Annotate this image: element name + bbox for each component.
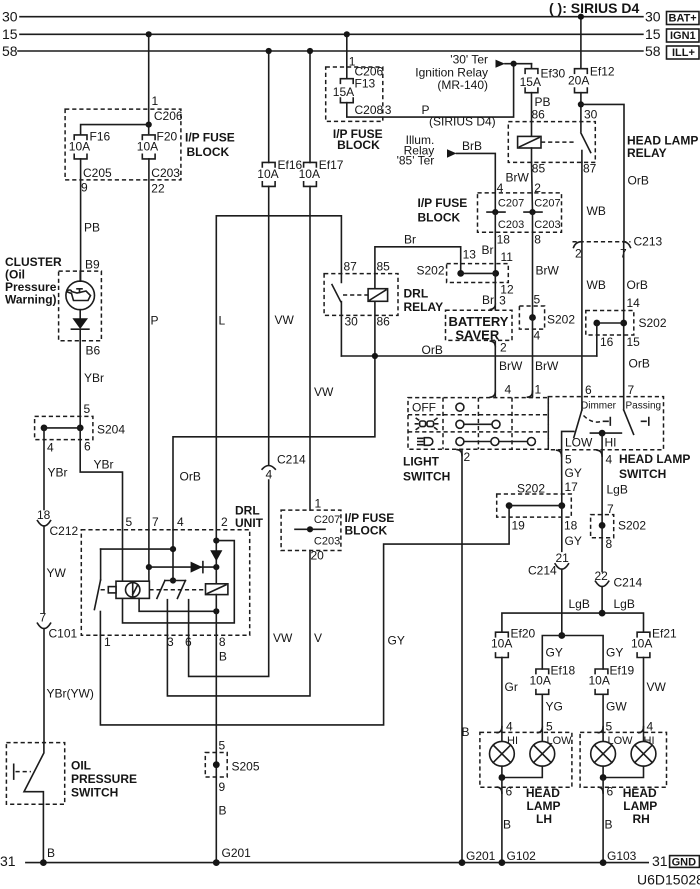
connector C214-4 arc bbox=[262, 466, 275, 470]
pin3 wire bbox=[166, 600, 168, 636]
C213 hook right bbox=[623, 242, 631, 248]
pin5 wire into motor unit bbox=[122, 530, 124, 581]
svg-text:HEAD: HEAD bbox=[526, 786, 560, 800]
I/P fuse block 2 dashed box bbox=[326, 67, 383, 121]
light switch contacts row1 bbox=[456, 403, 464, 411]
splice dot S202 box2 bbox=[529, 314, 536, 321]
svg-text:58: 58 bbox=[2, 43, 18, 59]
pin2 wire down bbox=[215, 530, 217, 584]
wire Ef21 out VW to HI lamp bbox=[643, 658, 645, 742]
svg-text:UNIT: UNIT bbox=[235, 516, 264, 530]
dimmer blade bbox=[574, 410, 582, 438]
wire C206 to F16 bbox=[81, 125, 149, 134]
svg-text:B: B bbox=[219, 650, 227, 664]
fuse Ef16 bbox=[262, 162, 275, 186]
svg-text:10A: 10A bbox=[137, 139, 158, 153]
svg-text:BrB: BrB bbox=[462, 139, 482, 153]
head lamp RH LOW bulb bbox=[591, 741, 616, 766]
inner loop wire to motor bottom bbox=[123, 541, 235, 623]
passing contact mark bbox=[642, 418, 649, 426]
svg-text:OrB: OrB bbox=[422, 343, 443, 357]
svg-text:V: V bbox=[314, 631, 322, 645]
svg-text:F20: F20 bbox=[157, 130, 178, 144]
svg-text:30: 30 bbox=[345, 315, 359, 329]
wire WB C213-2 to dimmer 6 bbox=[581, 242, 583, 410]
svg-text:PRESSURE: PRESSURE bbox=[71, 772, 137, 786]
svg-text:BrW: BrW bbox=[536, 264, 560, 278]
junction dot OrB x374.9 bbox=[372, 353, 378, 359]
pin8 wire down to S205 bbox=[215, 635, 217, 862]
svg-text:LH: LH bbox=[536, 812, 552, 826]
S202 box 5 bbox=[591, 515, 614, 538]
svg-text:VW: VW bbox=[275, 313, 295, 327]
svg-text:GY: GY bbox=[606, 646, 623, 660]
DRL relay coil bbox=[368, 289, 388, 302]
C207/C203 box on V wire bbox=[281, 510, 341, 550]
svg-text:Ef18: Ef18 bbox=[551, 664, 576, 678]
wire Ef17 out down to C207 bbox=[309, 186, 311, 510]
svg-text:2: 2 bbox=[500, 341, 507, 355]
svg-text:LgB: LgB bbox=[569, 597, 590, 611]
head lamp relay coil bbox=[518, 136, 541, 148]
connector C214-22 arc bbox=[595, 581, 608, 586]
svg-text:15: 15 bbox=[645, 26, 661, 42]
svg-text:L: L bbox=[219, 314, 226, 328]
svg-text:B6: B6 bbox=[86, 344, 101, 358]
svg-text:S204: S204 bbox=[97, 423, 125, 437]
svg-text:15A: 15A bbox=[520, 75, 541, 89]
junction dot bus15 x346.8 bbox=[344, 31, 350, 37]
LIGHT SWITCH dashed box bbox=[408, 398, 548, 450]
svg-text:'85' Ter: '85' Ter bbox=[397, 154, 435, 168]
junction dot diode to pin2 bbox=[213, 564, 219, 570]
motor unit box bbox=[116, 581, 149, 598]
svg-text:Warning): Warning) bbox=[5, 293, 57, 307]
svg-text:GY: GY bbox=[565, 466, 582, 480]
left switch upper wire bbox=[100, 549, 102, 580]
wire coil85 out BrW bbox=[531, 148, 533, 162]
svg-text:YBr(YW): YBr(YW) bbox=[47, 687, 94, 701]
svg-text:RELAY: RELAY bbox=[627, 146, 667, 160]
svg-text:U6D15028: U6D15028 bbox=[637, 872, 700, 888]
oil pressure switch blade bbox=[24, 743, 44, 805]
svg-text:4: 4 bbox=[647, 720, 654, 734]
svg-text:Br: Br bbox=[482, 243, 494, 257]
svg-text:C101: C101 bbox=[49, 627, 78, 641]
svg-text:18: 18 bbox=[497, 233, 511, 247]
svg-text:Br: Br bbox=[482, 293, 494, 307]
svg-text:GY: GY bbox=[546, 646, 563, 660]
center contact bar bbox=[170, 577, 176, 583]
svg-text:HEAD: HEAD bbox=[623, 786, 657, 800]
svg-text:B9: B9 bbox=[85, 258, 100, 272]
svg-text:10A: 10A bbox=[631, 637, 652, 651]
svg-text:Gr: Gr bbox=[505, 680, 518, 694]
junction dot bus58 x310 bbox=[307, 48, 313, 54]
wire from bus15 to I/P fuse block C206 bbox=[148, 34, 150, 133]
svg-text:Ef20: Ef20 bbox=[511, 627, 536, 641]
park lamp icon bbox=[415, 418, 437, 429]
svg-text:YG: YG bbox=[546, 700, 563, 714]
pin1 route to GY wire bbox=[100, 506, 509, 725]
wire Ef19 out GW to LOW lamp bbox=[602, 694, 604, 741]
diode horizontal bbox=[149, 566, 216, 568]
wire F16 out PB down to cluster bbox=[80, 159, 82, 281]
svg-text:Ef30: Ef30 bbox=[541, 67, 566, 81]
pin1 wire bbox=[99, 612, 101, 636]
svg-text:LgB: LgB bbox=[614, 597, 635, 611]
svg-text:7: 7 bbox=[628, 383, 635, 397]
svg-text:4: 4 bbox=[266, 468, 273, 482]
svg-text:5: 5 bbox=[606, 720, 613, 734]
relay internal dashed link bbox=[541, 141, 576, 143]
wire Ef16 from bus58 bbox=[268, 51, 270, 163]
svg-text:6: 6 bbox=[585, 383, 592, 397]
center blade right bbox=[177, 581, 185, 599]
light switch contacts row2 bbox=[460, 423, 496, 425]
svg-text:31: 31 bbox=[652, 853, 668, 869]
light switch contacts row3 bbox=[460, 441, 532, 443]
wire coil 86 down to OrB junction then to DRL unit pin4 bbox=[173, 301, 375, 530]
OIL PRESSURE SWITCH dashed box bbox=[6, 743, 64, 805]
svg-text:OrB: OrB bbox=[629, 357, 650, 371]
svg-text:G103: G103 bbox=[607, 849, 637, 863]
horizontal pin4 to left switch bbox=[101, 548, 173, 550]
svg-text:7: 7 bbox=[40, 611, 47, 625]
svg-text:BrW: BrW bbox=[499, 359, 523, 373]
BATTERY SAVER dashed box bbox=[446, 310, 513, 340]
svg-text:OrB: OrB bbox=[627, 278, 648, 292]
svg-text:3: 3 bbox=[499, 294, 506, 308]
wire lamp out B6 bbox=[79, 329, 81, 428]
junction dot low beam feed bbox=[558, 632, 565, 639]
svg-text:BLOCK: BLOCK bbox=[345, 524, 388, 538]
svg-text:4: 4 bbox=[534, 328, 541, 342]
svg-text:10A: 10A bbox=[530, 674, 551, 688]
wire Ef17 from bus58 bbox=[309, 51, 311, 163]
svg-text:VW: VW bbox=[273, 631, 293, 645]
terminal 2 hook bottom bbox=[457, 450, 462, 456]
C213 hook left bbox=[574, 242, 582, 248]
svg-text:(SIRIUS D4): (SIRIUS D4) bbox=[429, 115, 496, 129]
relay switch lower terminal bbox=[581, 151, 583, 163]
tick and dot C207/C203 bbox=[295, 528, 325, 530]
wire S204-4 YBr down bbox=[43, 428, 45, 510]
junction dot pin4 node bbox=[170, 546, 176, 552]
svg-text:3: 3 bbox=[385, 103, 392, 117]
passing wire into switch bbox=[623, 397, 625, 410]
svg-text:13: 13 bbox=[463, 248, 477, 262]
motor right bottom wire to rail A bbox=[139, 598, 216, 611]
svg-text:19: 19 bbox=[512, 519, 526, 533]
I/P fuse block 1 dashed box bbox=[65, 109, 181, 180]
wire HI LgB from switch bbox=[601, 450, 603, 526]
svg-text:8: 8 bbox=[534, 233, 541, 247]
svg-text:11: 11 bbox=[501, 250, 514, 264]
svg-text:C214: C214 bbox=[277, 453, 306, 467]
C213 dashed connector line bbox=[573, 241, 631, 243]
wire branch OrB to the right bbox=[581, 104, 624, 241]
LgB bus horizontal bbox=[502, 613, 644, 632]
svg-text:C207: C207 bbox=[498, 198, 524, 210]
lamp terminal hooks LH bbox=[497, 727, 542, 733]
relay switch blade bbox=[581, 133, 591, 153]
svg-text:18: 18 bbox=[564, 519, 578, 533]
svg-text:GW: GW bbox=[606, 700, 627, 714]
wire S202-18 GY down to C214-21 bbox=[561, 506, 563, 552]
pin8 wire through coil down bbox=[215, 595, 217, 636]
fuse Ef18 bbox=[536, 669, 549, 694]
svg-text:P: P bbox=[151, 314, 159, 328]
svg-text:2: 2 bbox=[221, 515, 228, 529]
svg-text:SAVER: SAVER bbox=[455, 328, 499, 343]
wire Ef12 out to relay 30 bbox=[580, 93, 582, 132]
hook 6 RH bbox=[598, 787, 603, 793]
wire RH common down bbox=[602, 778, 604, 863]
svg-text:1: 1 bbox=[104, 635, 111, 649]
svg-text:C206: C206 bbox=[154, 109, 183, 123]
oil pressure switch fixed contact bbox=[13, 764, 15, 779]
splice dots S202 box3 bbox=[593, 320, 600, 327]
oil can icon bbox=[67, 289, 90, 301]
svg-text:1: 1 bbox=[535, 383, 542, 397]
C207/C203 tick right bbox=[524, 211, 542, 213]
wire Ef18 out YG to LOW lamp bbox=[541, 694, 543, 741]
splice dot S202 box5 bbox=[599, 522, 606, 529]
svg-text:5: 5 bbox=[126, 515, 133, 529]
svg-text:18: 18 bbox=[37, 508, 51, 522]
horizontal L wire from DRL relay 87 bbox=[216, 216, 341, 530]
junction dot bus15 x148.7 bbox=[146, 31, 152, 37]
svg-text:1: 1 bbox=[152, 94, 159, 108]
fuse Ef17 bbox=[304, 162, 317, 186]
svg-text:86: 86 bbox=[532, 108, 546, 122]
passing blade bbox=[624, 410, 634, 434]
wire S202-4 BrW to light switch 1 bbox=[532, 318, 534, 397]
svg-text:15: 15 bbox=[627, 335, 641, 349]
junction dot pin7 node bbox=[146, 564, 152, 570]
S202 box 2 small bbox=[519, 306, 544, 329]
svg-text:5: 5 bbox=[219, 739, 226, 753]
connector C101 arc bbox=[37, 623, 50, 628]
svg-text:SWITCH: SWITCH bbox=[403, 470, 450, 484]
wire S204-6 YBr to DRL pin5 bbox=[80, 428, 122, 530]
svg-text:DRL: DRL bbox=[404, 287, 429, 301]
wire HI down bbox=[601, 433, 603, 450]
svg-text:WB: WB bbox=[587, 278, 606, 292]
svg-text:30: 30 bbox=[584, 108, 598, 122]
svg-text:C203: C203 bbox=[498, 219, 524, 231]
svg-text:86: 86 bbox=[377, 315, 391, 329]
diode vertical filled bbox=[210, 550, 222, 561]
svg-text:G201: G201 bbox=[222, 846, 252, 860]
wire BrB to C207 pin4 bbox=[457, 153, 496, 212]
C207/C203 tick left bbox=[487, 211, 505, 213]
svg-text:PB: PB bbox=[84, 221, 100, 235]
junction dot LgB bus bbox=[599, 610, 606, 617]
fuse Ef12 bbox=[575, 69, 588, 93]
svg-text:B: B bbox=[605, 818, 613, 832]
fuse Ef20 bbox=[496, 632, 509, 657]
svg-text:2: 2 bbox=[464, 450, 471, 464]
svg-text:4: 4 bbox=[47, 441, 54, 455]
splice dots S202 box4 bbox=[506, 502, 513, 509]
fuse Ef30 bbox=[525, 69, 538, 93]
wire S202-12 to battery saver to light switch 4 bbox=[494, 273, 496, 309]
svg-text:15: 15 bbox=[2, 26, 18, 42]
svg-text:Ef12: Ef12 bbox=[590, 65, 615, 79]
svg-text:10A: 10A bbox=[491, 637, 512, 651]
svg-text:Br: Br bbox=[404, 233, 416, 247]
svg-text:G102: G102 bbox=[507, 849, 537, 863]
svg-text:LAMP: LAMP bbox=[623, 799, 657, 813]
junction dot rail A pin8 bbox=[213, 608, 219, 614]
relay coil on pin8 wire bbox=[206, 584, 228, 595]
svg-text:20: 20 bbox=[311, 549, 325, 563]
svg-text:LIGHT: LIGHT bbox=[403, 455, 440, 469]
svg-text:B: B bbox=[47, 846, 55, 860]
splice dot S205 bbox=[213, 761, 220, 768]
HEAD LAMP RH dashed box bbox=[580, 732, 666, 787]
svg-text:RELAY: RELAY bbox=[404, 300, 444, 314]
wire LOW GY from switch bbox=[561, 450, 563, 506]
head lamp RH HI bulb bbox=[631, 741, 656, 766]
fuse F13 bbox=[340, 79, 353, 103]
svg-text:9: 9 bbox=[81, 181, 88, 195]
svg-text:(MR-140): (MR-140) bbox=[437, 78, 488, 92]
svg-text:LgB: LgB bbox=[607, 483, 628, 497]
boxed label ILL+ bbox=[667, 46, 700, 59]
bus line 30 (BAT+) bbox=[20, 16, 643, 18]
svg-text:SWITCH: SWITCH bbox=[619, 467, 666, 481]
svg-text:I/P FUSE: I/P FUSE bbox=[185, 131, 235, 145]
arrow to ignition relay 30 node bbox=[496, 60, 506, 68]
pin6 route to VW wire bbox=[189, 480, 269, 676]
wire 87 WB down to C213 bbox=[581, 162, 583, 241]
hook 6 LH bbox=[497, 787, 502, 793]
S202 box 1 bbox=[447, 264, 509, 283]
link dash left bbox=[101, 589, 109, 591]
svg-text:10A: 10A bbox=[69, 139, 90, 153]
cluster dashed box bbox=[59, 271, 102, 341]
junction dot HI bbox=[599, 430, 606, 437]
svg-text:C203: C203 bbox=[534, 219, 560, 231]
svg-text:22: 22 bbox=[595, 569, 609, 583]
arrow BrB bbox=[447, 149, 457, 157]
light switch internal dashed dividers bbox=[442, 398, 444, 450]
boxed label GND bbox=[670, 856, 700, 868]
svg-text:10A: 10A bbox=[299, 167, 320, 181]
svg-text:BLOCK: BLOCK bbox=[187, 145, 230, 159]
svg-text:30: 30 bbox=[2, 9, 18, 25]
svg-text:BLOCK: BLOCK bbox=[337, 138, 380, 152]
S202 box 3 bbox=[586, 311, 634, 336]
svg-text:C203: C203 bbox=[151, 166, 180, 180]
svg-text:OrB: OrB bbox=[628, 174, 649, 188]
junction dot ign 30 node bbox=[510, 61, 516, 67]
wire light switch 2 down to ground bbox=[461, 449, 463, 862]
svg-text:HEAD LAMP: HEAD LAMP bbox=[619, 452, 690, 466]
svg-text:30: 30 bbox=[645, 9, 661, 25]
splice dots S202 box1 bbox=[457, 270, 464, 277]
pin3 route to V wire bbox=[167, 551, 310, 696]
OrB horizontal wire relay30 to S202-16 bbox=[341, 355, 596, 357]
svg-text:GY: GY bbox=[565, 534, 582, 548]
svg-text:6: 6 bbox=[607, 785, 614, 799]
svg-text:5: 5 bbox=[565, 453, 572, 467]
svg-text:VW: VW bbox=[647, 680, 667, 694]
head lamp icon bbox=[418, 438, 433, 446]
wire C203-18 Br down to S202 bbox=[494, 212, 496, 273]
HI junction bar bbox=[590, 432, 621, 434]
svg-text:C214: C214 bbox=[528, 564, 557, 578]
junction dot RH common bbox=[600, 774, 607, 781]
svg-text:YBr: YBr bbox=[48, 466, 68, 480]
fuse Ef21 bbox=[637, 632, 650, 657]
svg-text:GND: GND bbox=[672, 856, 697, 868]
low beam feed horizontal bbox=[542, 636, 603, 670]
fuse Ef19 bbox=[595, 669, 608, 694]
pin6 wire bbox=[188, 600, 190, 636]
RH bulbs to common bbox=[603, 766, 643, 777]
svg-text:SWITCH: SWITCH bbox=[71, 786, 118, 800]
svg-text:B: B bbox=[503, 818, 511, 832]
svg-text:C203: C203 bbox=[314, 536, 340, 548]
wire S202-16 down to OrB horizontal bbox=[596, 323, 598, 356]
svg-text:YBr: YBr bbox=[94, 458, 114, 472]
svg-text:S202: S202 bbox=[547, 313, 575, 327]
wire C203-8 BrW down bbox=[532, 212, 534, 317]
svg-text:GY: GY bbox=[388, 634, 405, 648]
svg-text:LAMP: LAMP bbox=[527, 799, 561, 813]
junction dot bus58 x268.7 bbox=[266, 48, 272, 54]
wire LH common down bbox=[501, 778, 503, 863]
svg-text:5: 5 bbox=[546, 720, 553, 734]
svg-text:7: 7 bbox=[152, 515, 159, 529]
svg-text:58: 58 bbox=[645, 43, 661, 59]
svg-text:LOW: LOW bbox=[565, 436, 593, 450]
LOW contact bar bbox=[562, 431, 574, 449]
DRL relay dashed box bbox=[324, 274, 398, 316]
svg-text:VW: VW bbox=[314, 385, 334, 399]
bus line 58 (ILL+) bbox=[18, 50, 643, 52]
svg-text:RH: RH bbox=[633, 812, 650, 826]
svg-text:'30' Ter: '30' Ter bbox=[450, 53, 488, 67]
pin7 wire bbox=[148, 530, 150, 581]
ground dots bbox=[40, 859, 47, 866]
svg-text:HI: HI bbox=[605, 436, 617, 450]
svg-text:2: 2 bbox=[575, 247, 582, 261]
svg-text:C213: C213 bbox=[634, 235, 663, 249]
HI contact mark bbox=[604, 418, 611, 426]
svg-text:87: 87 bbox=[583, 162, 597, 176]
svg-text:C212: C212 bbox=[50, 524, 79, 538]
svg-text:F13: F13 bbox=[355, 77, 376, 91]
wire BrW coil85 to C207 pin2 bbox=[532, 162, 533, 212]
svg-text:YW: YW bbox=[47, 566, 67, 580]
svg-text:21: 21 bbox=[556, 551, 570, 565]
svg-text:Dimmer: Dimmer bbox=[581, 401, 617, 412]
svg-text:10A: 10A bbox=[257, 167, 278, 181]
svg-text:6: 6 bbox=[506, 785, 513, 799]
svg-text:S202: S202 bbox=[639, 316, 667, 330]
svg-text:87: 87 bbox=[344, 260, 358, 274]
svg-text:S202: S202 bbox=[618, 519, 646, 533]
fuse F20 bbox=[142, 135, 155, 159]
svg-text:5: 5 bbox=[534, 293, 541, 307]
DRL relay dashed link bbox=[343, 294, 368, 296]
wire Ef16 out VW down bbox=[268, 186, 270, 465]
